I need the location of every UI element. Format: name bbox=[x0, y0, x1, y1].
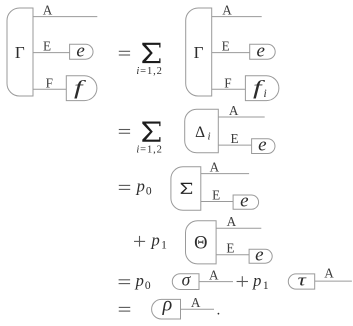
svg-text:A: A bbox=[324, 266, 334, 281]
state sigma box (row5) bbox=[172, 274, 199, 290]
wire A (row4) bbox=[216, 227, 261, 229]
wire F (row1 right) bbox=[212, 88, 246, 90]
wire E (row1 left) bbox=[33, 52, 70, 54]
effect f box (row1 left) bbox=[66, 76, 97, 101]
svg-text:p: p bbox=[135, 271, 144, 290]
wire E (row2) bbox=[218, 144, 251, 146]
svg-text:σ: σ bbox=[182, 270, 192, 290]
effect e box (row3) bbox=[233, 195, 259, 209]
svg-text:p: p bbox=[136, 177, 145, 196]
state tau box (row5) bbox=[288, 274, 314, 289]
equals sign (row2) bbox=[119, 130, 130, 134]
svg-text:E: E bbox=[212, 188, 220, 203]
svg-text:p: p bbox=[150, 230, 159, 249]
wire A from rho (row6) bbox=[181, 308, 215, 310]
state Delta_i blob (row2) bbox=[185, 109, 219, 153]
svg-text:e: e bbox=[258, 135, 266, 156]
svg-text:p: p bbox=[252, 271, 261, 290]
svg-text:Γ: Γ bbox=[15, 43, 25, 62]
equals sign (row1) bbox=[119, 51, 130, 55]
svg-text:e: e bbox=[76, 40, 84, 61]
svg-text:E: E bbox=[43, 39, 51, 54]
svg-text:Δ: Δ bbox=[195, 124, 205, 141]
effect f_i box (row1 right) bbox=[245, 76, 279, 101]
equals sign (row6) bbox=[119, 307, 131, 311]
state Gamma (row1 left) bbox=[7, 8, 33, 96]
svg-text:E: E bbox=[222, 39, 230, 54]
svg-text:.: . bbox=[217, 302, 221, 318]
svg-text:A: A bbox=[229, 103, 239, 118]
svg-text:i=1,2: i=1,2 bbox=[136, 66, 162, 77]
svg-text:0: 0 bbox=[145, 280, 151, 292]
svg-text:e: e bbox=[256, 40, 264, 61]
wire A (row1 right) bbox=[212, 16, 262, 18]
plus sign (row5) bbox=[237, 276, 248, 287]
effect e box (row4) bbox=[249, 249, 272, 263]
svg-text:E: E bbox=[226, 241, 234, 256]
effect e box (row1 right) bbox=[250, 44, 276, 59]
svg-text:e: e bbox=[240, 191, 248, 212]
wire E (row3) bbox=[201, 201, 233, 203]
svg-text:i: i bbox=[264, 88, 267, 100]
svg-text:i: i bbox=[208, 130, 211, 142]
wire A from sigma (row5) bbox=[199, 281, 233, 283]
svg-text:Γ: Γ bbox=[194, 43, 204, 62]
effect e box (row1 left) bbox=[70, 44, 93, 59]
svg-text:e: e bbox=[255, 245, 263, 266]
wire A from tau (row5) bbox=[315, 280, 352, 282]
state Theta blob (row4) bbox=[186, 221, 217, 264]
summation Sigma (row1) bbox=[142, 43, 160, 63]
state rho box (row6) bbox=[152, 299, 181, 319]
equals sign (row5) bbox=[119, 280, 131, 284]
svg-text:E: E bbox=[230, 131, 238, 146]
svg-text:A: A bbox=[191, 295, 201, 310]
svg-text:A: A bbox=[227, 214, 237, 229]
wire E (row1 right) bbox=[212, 52, 250, 54]
svg-text:A: A bbox=[222, 3, 232, 18]
wire A (row1 left) bbox=[33, 16, 97, 18]
wire A (row3) bbox=[201, 173, 249, 175]
svg-text:Θ: Θ bbox=[194, 234, 207, 254]
plus sign (row4) bbox=[134, 236, 145, 247]
svg-text:1: 1 bbox=[263, 280, 269, 292]
state Gamma (row1 right) bbox=[186, 8, 212, 96]
svg-text:F: F bbox=[224, 75, 231, 90]
equals sign (row3) bbox=[119, 185, 130, 189]
svg-text:i=1,2: i=1,2 bbox=[136, 145, 162, 156]
svg-text:A: A bbox=[210, 160, 220, 175]
svg-text:F: F bbox=[46, 75, 53, 90]
svg-text:A: A bbox=[209, 268, 219, 283]
state Sigma blob (row3) bbox=[171, 167, 201, 211]
wire E (row4) bbox=[216, 254, 249, 256]
svg-text:1: 1 bbox=[161, 240, 167, 252]
label Sigma in blob (row3) bbox=[181, 183, 192, 194]
wire A (row2) bbox=[218, 116, 264, 118]
svg-text:A: A bbox=[43, 3, 53, 18]
svg-text:ρ: ρ bbox=[162, 294, 173, 316]
svg-text:0: 0 bbox=[146, 186, 152, 198]
effect e box (row2) bbox=[252, 139, 275, 154]
summation Sigma (row2) bbox=[142, 122, 160, 142]
wire F (row1 left) bbox=[33, 88, 66, 90]
